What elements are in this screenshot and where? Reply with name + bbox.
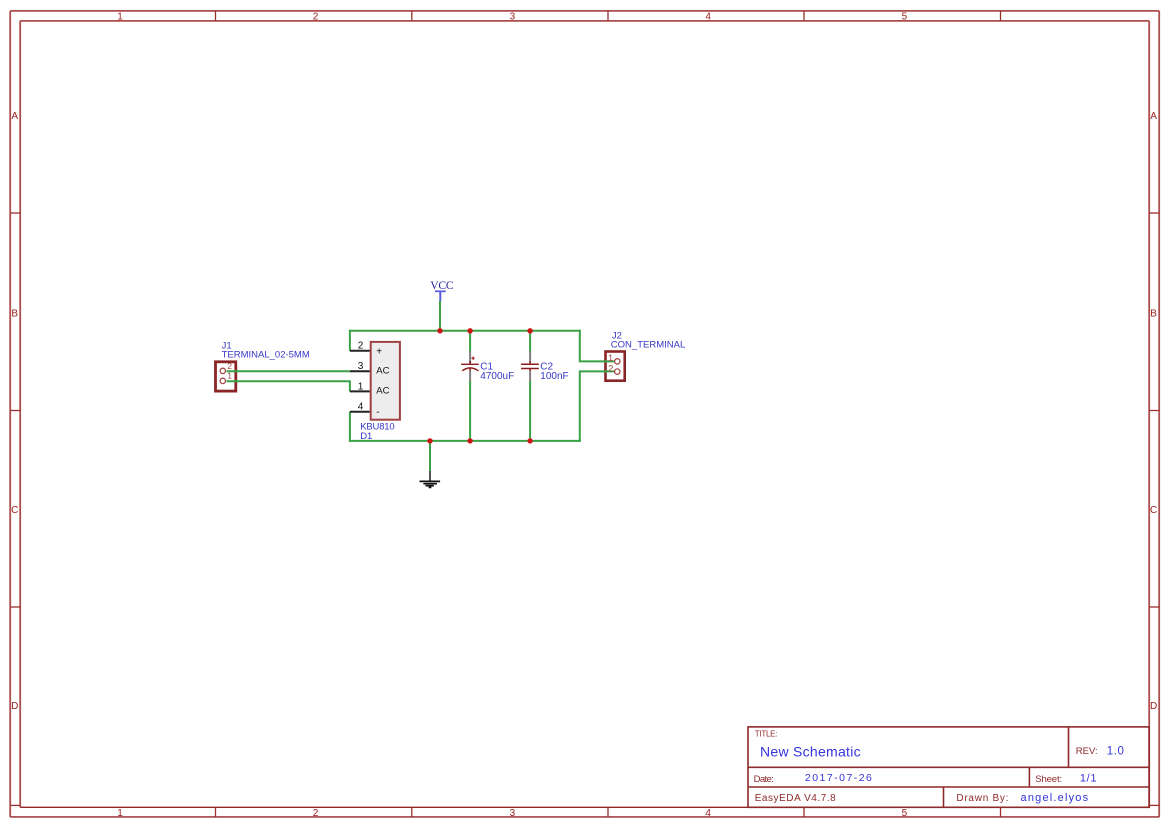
J2 refdes label <box>612 330 622 341</box>
title block <box>748 727 1149 807</box>
svg-text:3: 3 <box>358 361 364 372</box>
svg-text:Sheet:: Sheet: <box>1035 774 1062 785</box>
svg-text:2: 2 <box>227 361 232 371</box>
wire C2 bottom <box>529 381 531 441</box>
svg-text:1: 1 <box>227 371 232 381</box>
svg-text:3: 3 <box>510 11 516 22</box>
REV value 1.0 <box>1107 745 1124 757</box>
svg-text:C: C <box>1150 505 1157 516</box>
J1 value label <box>222 350 310 361</box>
svg-text:2: 2 <box>608 363 613 374</box>
svg-text:100nF: 100nF <box>540 371 568 382</box>
svg-text:angel.elyos: angel.elyos <box>1021 792 1089 804</box>
D1 pin 2 <box>350 341 382 358</box>
svg-text:TITLE:: TITLE: <box>755 729 778 738</box>
svg-text:D: D <box>11 701 18 712</box>
svg-text:4: 4 <box>705 808 711 819</box>
svg-text:2017-07-26: 2017-07-26 <box>805 772 872 784</box>
capacitor C2 <box>521 351 539 381</box>
svg-text:D: D <box>1150 701 1157 712</box>
svg-text:EasyEDA V4.7.8: EasyEDA V4.7.8 <box>755 793 836 804</box>
D1 pin 3 <box>350 361 390 376</box>
junction bottom rail at ground <box>427 438 432 443</box>
svg-text:B: B <box>11 309 18 320</box>
svg-text:-: - <box>376 407 379 418</box>
wire C2 top <box>529 331 531 352</box>
Sheet value 1/1 <box>1080 773 1097 785</box>
svg-text:5: 5 <box>902 11 908 22</box>
Drawn By label <box>956 793 1008 804</box>
power flag VCC <box>435 291 446 301</box>
net label VCC <box>430 280 454 292</box>
C1 refdes label <box>480 361 493 372</box>
svg-text:A: A <box>1150 111 1157 122</box>
svg-text:Date:: Date: <box>754 774 774 785</box>
wire C1 bottom <box>469 381 471 441</box>
junction top rail at C2 <box>527 328 532 333</box>
svg-text:1: 1 <box>608 352 613 363</box>
wire VCC drop <box>439 301 441 331</box>
D1 pin 4 <box>350 402 380 418</box>
J1 refdes label <box>222 340 232 351</box>
wire J1.2 to D1.3 <box>227 370 350 372</box>
wire top rail to J2.1 <box>580 330 615 362</box>
junction bottom rail at C2 <box>527 438 532 443</box>
REV label <box>1076 746 1098 757</box>
C2 value label 100nF <box>540 371 568 382</box>
Drawn By value angel.elyos <box>1021 792 1089 804</box>
junction top rail at VCC <box>437 328 442 333</box>
svg-text:2: 2 <box>313 11 319 22</box>
title text New Schematic <box>760 744 861 760</box>
svg-text:4: 4 <box>705 11 711 22</box>
connector J2 <box>606 352 625 381</box>
svg-text:B: B <box>1150 309 1157 320</box>
C1 value label 4700uF <box>480 371 514 382</box>
svg-text:2: 2 <box>313 808 319 819</box>
svg-text:AC: AC <box>376 365 389 376</box>
D1 value label KBU810 <box>360 422 395 433</box>
C2 refdes label <box>540 361 553 372</box>
svg-text:5: 5 <box>902 808 908 819</box>
svg-text:Drawn By:: Drawn By: <box>956 793 1008 804</box>
svg-text:4700uF: 4700uF <box>480 371 514 382</box>
C1 plus sign <box>472 357 475 360</box>
bridge rectifier D1 <box>371 342 400 420</box>
Date label <box>754 774 774 785</box>
wire bottom rail <box>349 440 581 442</box>
capacitor C1 <box>461 351 479 381</box>
svg-text:New Schematic: New Schematic <box>760 744 861 760</box>
J2 value label <box>611 339 685 350</box>
Sheet label <box>1035 774 1062 785</box>
J2 pin 1 <box>608 352 620 364</box>
junction top rail at C1 <box>467 328 472 333</box>
wire J2.2 to bottom rail <box>580 371 615 442</box>
svg-text:4: 4 <box>358 402 364 413</box>
svg-text:1.0: 1.0 <box>1107 745 1124 757</box>
wire C1 top <box>469 331 471 352</box>
wire top rail <box>349 330 581 332</box>
svg-text:1/1: 1/1 <box>1080 773 1097 785</box>
wire J1.1 to D1.1 <box>227 381 350 391</box>
ground <box>420 471 441 488</box>
svg-text:1: 1 <box>117 11 123 22</box>
J2 pin 2 <box>608 363 620 375</box>
svg-text:REV:: REV: <box>1076 746 1098 757</box>
svg-text:1: 1 <box>117 808 123 819</box>
svg-text:D1: D1 <box>360 431 372 442</box>
svg-text:VCC: VCC <box>430 280 454 292</box>
Date value <box>805 772 872 784</box>
J1 pin 2 <box>220 361 232 374</box>
svg-text:A: A <box>11 111 18 122</box>
wire ground drop <box>429 441 431 471</box>
D1 refdes label <box>360 431 372 442</box>
svg-text:TERMINAL_02-5MM: TERMINAL_02-5MM <box>222 350 310 361</box>
EasyEDA version label <box>755 793 836 804</box>
svg-text:3: 3 <box>510 808 516 819</box>
D1 pin 1 <box>350 381 390 396</box>
J1 pin 1 <box>220 371 232 384</box>
svg-text:AC: AC <box>376 386 389 397</box>
title block TITLE label <box>755 729 778 738</box>
svg-text:2: 2 <box>358 341 364 352</box>
connector J1 <box>216 362 236 391</box>
wire D1.4 down to bottom rail <box>349 412 351 442</box>
wire D1.2 up to top rail <box>349 330 351 351</box>
svg-text:C: C <box>11 505 18 516</box>
svg-text:CON_TERMINAL: CON_TERMINAL <box>611 339 685 350</box>
junction bottom rail at C1 <box>467 438 472 443</box>
svg-text:+: + <box>376 346 382 357</box>
svg-text:1: 1 <box>358 381 364 392</box>
